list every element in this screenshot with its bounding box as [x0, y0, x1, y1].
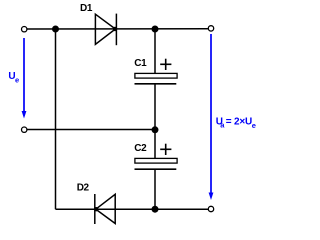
- svg-text:C1: C1: [134, 58, 147, 69]
- svg-text:D2: D2: [77, 183, 90, 194]
- svg-text:C2: C2: [134, 143, 147, 154]
- svg-text:e: e: [252, 121, 256, 130]
- svg-text:= 2×U: = 2×U: [226, 117, 252, 128]
- svg-text:D1: D1: [80, 3, 93, 14]
- svg-text:e: e: [15, 76, 19, 85]
